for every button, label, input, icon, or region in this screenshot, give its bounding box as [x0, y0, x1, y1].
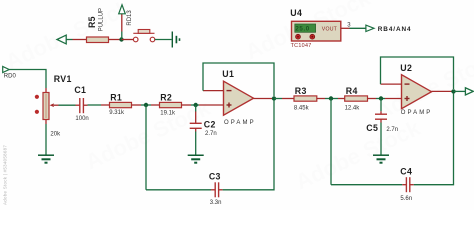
svg-text:R5: R5 [87, 16, 97, 28]
svg-text:19.1k: 19.1k [160, 111, 176, 117]
pot pin dot upper [35, 95, 39, 99]
U2 minus sign [405, 83, 410, 85]
svg-text:C5: C5 [366, 123, 378, 133]
svg-text:C2: C2 [204, 119, 216, 129]
button right contact circle [150, 37, 155, 42]
node junction (R5/RD13/button) [119, 37, 123, 41]
wire junction to R3 [274, 98, 282, 100]
wire C5 to ground [380, 123, 382, 155]
svg-text:C3: C3 [209, 171, 221, 181]
terminal arrow right RD0 [3, 67, 10, 73]
op-amp U1 [224, 81, 254, 115]
pot pin bottom [45, 120, 47, 125]
svg-text:R1: R1 [110, 92, 122, 102]
terminal arrow right RB4/AN4 [366, 25, 374, 31]
svg-text:R2: R2 [160, 92, 172, 102]
svg-text:25.0: 25.0 [295, 26, 309, 33]
U2 output pin [432, 90, 454, 92]
resistor R5 [87, 37, 109, 43]
U1 output pin [254, 98, 275, 100]
U2 feedback wire [381, 57, 454, 89]
resistor R1 [110, 102, 132, 107]
wire pot to ground [45, 124, 47, 155]
wire C2 to ground [195, 132, 197, 155]
U1 - pin stub [203, 90, 224, 92]
op-amp U2 [402, 75, 432, 109]
node R4/C5/U2+ junction [379, 96, 383, 100]
svg-text:C1: C1 [74, 85, 86, 95]
U2 plus sign [405, 96, 410, 101]
capacitor C5 pin top [380, 111, 382, 114]
svg-text:R3: R3 [295, 86, 307, 96]
capacitor C4 pin left [402, 184, 406, 186]
svg-text:RV1: RV1 [54, 74, 72, 84]
wire junction to button [122, 39, 134, 41]
capacitor C5 pin bottom [380, 119, 382, 122]
capacitor C3 pin right [219, 189, 223, 191]
resistor R3 pin left [282, 98, 294, 100]
svg-text:U2: U2 [400, 63, 412, 73]
svg-text:8.45k: 8.45k [294, 105, 310, 111]
ground (under C2) [188, 155, 204, 163]
svg-text:TC1047: TC1047 [291, 43, 312, 49]
capacitor C3 pin left [211, 189, 215, 191]
terminal arrow up RD13 [119, 5, 126, 14]
U1 minus sign [227, 90, 232, 92]
op-amp U2 + pin [385, 98, 402, 100]
svg-text:C4: C4 [400, 167, 412, 177]
svg-text:U1: U1 [222, 69, 234, 79]
wire to node [325, 98, 338, 100]
capacitor C1 pin right [83, 104, 87, 106]
svg-text:R4: R4 [346, 86, 358, 96]
pin dot 2 [310, 34, 315, 39]
capacitor C4 pin right [410, 184, 414, 186]
capacitor C4 [406, 177, 409, 192]
resistor R4 pin left [338, 98, 345, 100]
wire bottom left [331, 184, 402, 186]
resistor R2 pin right [182, 104, 192, 106]
capacitor C2 pin bottom [195, 128, 197, 131]
wire junction down [380, 99, 382, 112]
resistor R4 pin right [368, 98, 377, 100]
display window [295, 24, 316, 32]
pin dot 1 [296, 34, 301, 39]
node R3/R4 junction [329, 96, 333, 100]
resistor R2 pin left [151, 104, 160, 106]
wire junction down [195, 105, 197, 112]
wire bottom left [146, 189, 211, 191]
resistor R1 pin left [101, 104, 110, 106]
svg-text:100n: 100n [75, 116, 88, 122]
wire junction up [121, 32, 123, 40]
ground (under RV1) [38, 155, 54, 163]
terminal pin RD13 (red stub) [121, 14, 123, 32]
wire button to ground [155, 39, 172, 41]
wire pin3 to terminal [350, 27, 367, 29]
ground (rotated, right of button) [172, 32, 179, 48]
resistor R5 pin right [109, 39, 122, 41]
wire from arrow to R5 [66, 39, 72, 41]
wire junction to output arrow [454, 90, 466, 92]
svg-text:Adobe Stock | #534058687: Adobe Stock | #534058687 [3, 145, 8, 205]
svg-text:9.31k: 9.31k [109, 110, 125, 116]
wire RD0 to pot [9, 70, 46, 89]
resistor R3 [294, 96, 317, 101]
pot pin dot lower [35, 110, 39, 114]
wire bottom to U1 output [223, 100, 274, 190]
svg-text:RD13: RD13 [127, 10, 133, 26]
capacitor C5 [375, 114, 387, 119]
svg-text:U4: U4 [290, 8, 302, 18]
pot pin top [45, 88, 47, 93]
wire to node [376, 98, 385, 100]
wire bottom to U2 output [414, 93, 454, 185]
svg-text:RB4/AN4: RB4/AN4 [378, 26, 412, 33]
button left contact circle [133, 37, 138, 42]
svg-text:RD0: RD0 [4, 74, 17, 80]
U1 feedback wire [203, 63, 274, 96]
capacitor C2 [190, 123, 202, 128]
op-amp U1 + pin [199, 104, 224, 106]
resistor R1 pin right [132, 104, 142, 106]
resistor R3 pin right [317, 98, 325, 100]
pot wiper arrow [50, 103, 54, 107]
button actuator plate [133, 32, 154, 34]
wire junction down left side [330, 99, 332, 185]
node U2 output junction [451, 89, 455, 93]
node U1 output junction [272, 96, 276, 100]
svg-text:2.7n: 2.7n [205, 131, 217, 137]
svg-text:3.3n: 3.3n [210, 200, 222, 206]
resistor R5 pin left [73, 39, 87, 41]
wire wiper to C1 [59, 104, 76, 106]
capacitor C1 pin left [76, 104, 80, 106]
node R2/C2/U1+ junction [194, 103, 198, 107]
wire to node [141, 104, 151, 106]
capacitor C2 pin top [195, 112, 197, 124]
capacitor C3 [215, 182, 218, 197]
capacitor C1 [80, 98, 84, 113]
terminal arrow right (output) [465, 88, 473, 95]
wire junction down left side [145, 105, 147, 190]
wire to node [191, 104, 199, 106]
svg-text:OPAMP: OPAMP [224, 120, 256, 126]
IC U4 body [292, 21, 341, 41]
terminal arrow left (to R5) [57, 35, 66, 44]
ground (under C5) [373, 155, 389, 163]
svg-text:5.6n: 5.6n [400, 196, 412, 202]
pin 3 stub [341, 27, 350, 29]
svg-text:OPAMP: OPAMP [401, 110, 433, 116]
svg-text:VOUT: VOUT [322, 26, 338, 32]
resistor R2 [160, 102, 182, 107]
potentiometer RV1 body [43, 93, 49, 120]
wire C1 to R1 [88, 104, 102, 106]
svg-text:2.7n: 2.7n [386, 127, 398, 133]
resistor R4 [345, 96, 368, 101]
svg-text:12.4k: 12.4k [345, 105, 361, 111]
svg-text:PULLUP: PULLUP [99, 8, 105, 31]
node R1/R2 junction [144, 103, 148, 107]
button cap [138, 30, 150, 34]
U1 plus sign [227, 103, 232, 108]
svg-text:20k: 20k [50, 131, 61, 137]
U2 - pin stub [381, 83, 402, 85]
